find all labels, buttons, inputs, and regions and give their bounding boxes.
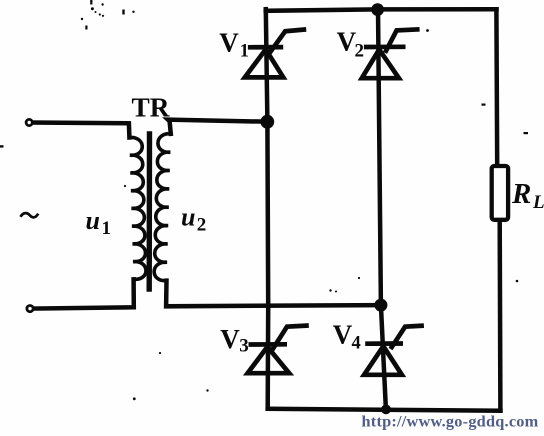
wire right side upper (top rail to RL): [494, 9, 499, 166]
transformer TR core: [146, 131, 152, 292]
node A secondary top junction: [260, 115, 274, 129]
svg-text:u: u: [181, 202, 195, 231]
wire primary bottom lead: [30, 279, 134, 308]
node top rail junction: [371, 3, 384, 16]
label V1: [219, 27, 249, 61]
AC source tilde: [21, 213, 39, 217]
wire bottom output rail: [268, 409, 501, 411]
wire secondary top lead to node A: [168, 120, 268, 134]
svg-text:u: u: [86, 206, 100, 235]
svg-text:V: V: [220, 324, 240, 354]
thyristor V4: [364, 326, 424, 375]
svg-text:1: 1: [240, 42, 249, 62]
terminal upper left: [26, 119, 32, 125]
node B secondary bottom junction: [374, 299, 387, 312]
label u2: [181, 202, 206, 235]
label u1: [86, 206, 112, 239]
svg-text:R: R: [511, 178, 531, 210]
wire top output rail: [266, 9, 497, 11]
resistor RL: [492, 166, 508, 220]
svg-text:TR: TR: [132, 93, 170, 123]
svg-text:2: 2: [355, 40, 365, 61]
svg-text:4: 4: [352, 334, 361, 354]
svg-text:V: V: [219, 27, 239, 57]
svg-text:1: 1: [102, 218, 112, 239]
transformer TR secondary winding: [154, 134, 171, 281]
wire primary top lead: [29, 123, 129, 138]
svg-text:3: 3: [239, 336, 249, 357]
svg-text:http://www.go-gddq.com: http://www.go-gddq.com: [362, 414, 539, 431]
svg-text:L: L: [532, 192, 544, 213]
thyristor V2: [362, 29, 420, 78]
wire secondary bottom lead to node B: [166, 281, 381, 307]
thyristor V3: [248, 326, 309, 374]
label V4: [333, 320, 361, 354]
transformer TR primary winding: [129, 137, 146, 279]
svg-text:V: V: [333, 320, 353, 350]
terminal lower left: [27, 306, 33, 312]
thyristor V1: [245, 29, 306, 77]
label V2: [337, 27, 364, 62]
label V3: [220, 324, 249, 357]
node bottom rail junction: [381, 405, 391, 415]
wire right side lower (RL to bottom rail): [497, 220, 502, 411]
wire left bridge arm vertical (V1 to V3 branch): [266, 9, 268, 409]
label RL: [511, 178, 544, 213]
wire middle bridge arm vertical (V2 to V4 branch): [378, 8, 386, 409]
svg-text:2: 2: [197, 214, 207, 235]
